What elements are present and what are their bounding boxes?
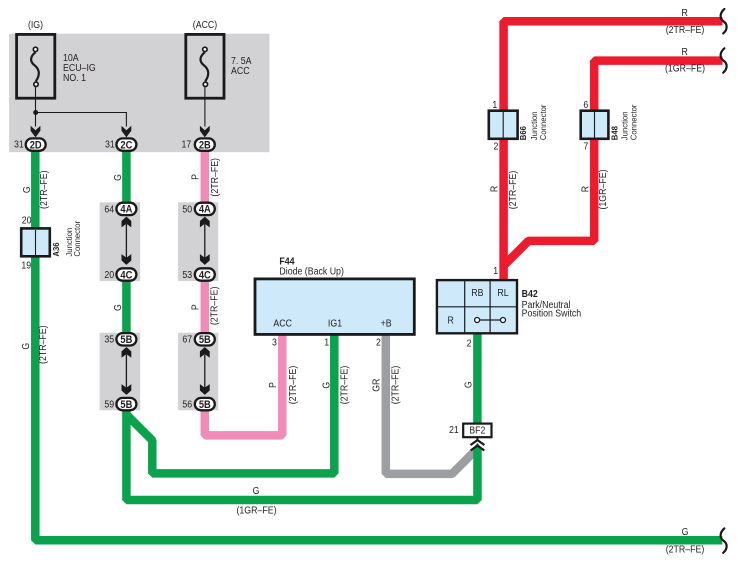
svg-text:19: 19 bbox=[21, 259, 31, 271]
label F44 Diode (Back Up) bbox=[279, 255, 343, 276]
connector oval 5B upper right bbox=[195, 333, 215, 346]
svg-text:R: R bbox=[448, 314, 455, 326]
svg-text:2: 2 bbox=[467, 337, 472, 349]
wire G: B42 pin 2 down to BF2 bbox=[473, 333, 482, 425]
connector oval 4A left bbox=[116, 203, 136, 216]
svg-text:R: R bbox=[579, 186, 591, 193]
connector oval 4C right bbox=[195, 268, 215, 281]
wire break symbol bottom right bbox=[721, 528, 727, 552]
fuse block panel bbox=[9, 34, 269, 153]
svg-text:5B: 5B bbox=[199, 399, 211, 411]
svg-text:G: G bbox=[111, 174, 123, 181]
svg-text:RL: RL bbox=[497, 287, 508, 299]
svg-text:1: 1 bbox=[324, 336, 329, 348]
wire from fuse IG down to junction node bbox=[35, 87, 37, 113]
park/neutral position switch B42 box bbox=[437, 280, 517, 333]
wire G: 2C down to 4A bbox=[122, 145, 131, 209]
svg-text:31: 31 bbox=[105, 138, 115, 150]
connector oval 2C bbox=[116, 138, 136, 151]
svg-text:50: 50 bbox=[182, 203, 192, 215]
svg-text:(1GR–FE): (1GR–FE) bbox=[236, 504, 276, 516]
svg-text:4A: 4A bbox=[120, 204, 133, 216]
svg-text:5B: 5B bbox=[199, 334, 211, 346]
label 21 BF2 bbox=[449, 424, 485, 436]
shaded box for connector pair 4A/4C (left) bbox=[100, 202, 141, 281]
svg-text:3: 3 bbox=[272, 336, 277, 348]
connector oval 5B upper left bbox=[116, 333, 136, 346]
shaded box for connector pair 5B/5B (right) bbox=[178, 333, 218, 411]
svg-text:4A: 4A bbox=[199, 204, 212, 216]
connector oval 2B bbox=[195, 138, 215, 151]
wire break symbol top right (2TR-FE) bbox=[721, 9, 727, 33]
svg-text:(2TR–FE): (2TR–FE) bbox=[208, 158, 220, 197]
wire G (1GR-FE): 5B down, right, up to BF2 bbox=[126, 404, 477, 500]
wire G (2TR-FE): 2D to A36 to bottom rail bbox=[35, 145, 722, 540]
svg-text:67: 67 bbox=[182, 333, 192, 345]
wire P (2TR-FE): 2B down to 4A bbox=[201, 145, 210, 209]
svg-text:5B: 5B bbox=[120, 399, 132, 411]
svg-text:20: 20 bbox=[104, 268, 114, 280]
connector BF2 box bbox=[463, 424, 491, 438]
wire G: 4C down to 5B bbox=[122, 274, 131, 340]
label B42 Park/Neutral Position Switch bbox=[522, 287, 582, 318]
svg-text:1: 1 bbox=[493, 265, 498, 277]
svg-text:GR: GR bbox=[370, 378, 382, 391]
svg-text:Position Switch: Position Switch bbox=[522, 307, 582, 319]
svg-text:(2TR–FE): (2TR–FE) bbox=[208, 287, 220, 326]
svg-text:B66: B66 bbox=[519, 126, 528, 141]
wire break symbol right (1GR-FE) bbox=[721, 48, 727, 72]
svg-text:31: 31 bbox=[14, 138, 24, 150]
shaded box for connector pair 5B/5B (left) bbox=[100, 333, 141, 411]
terminal arrow into 2B bbox=[200, 126, 210, 138]
double arrow between 4A and 4C (right) bbox=[200, 217, 210, 265]
svg-text:ACC: ACC bbox=[231, 64, 250, 76]
connector oval 5B lower left bbox=[116, 398, 136, 411]
svg-text:(2TR–FE): (2TR–FE) bbox=[666, 543, 705, 555]
svg-text:64: 64 bbox=[104, 203, 114, 215]
svg-text:R: R bbox=[682, 45, 689, 57]
fuse IG value label bbox=[63, 51, 96, 83]
svg-text:G: G bbox=[253, 484, 260, 496]
svg-text:IG1: IG1 bbox=[328, 317, 342, 329]
svg-text:2D: 2D bbox=[30, 140, 42, 152]
svg-text:(2TR–FE): (2TR–FE) bbox=[37, 170, 49, 209]
svg-text:B48: B48 bbox=[610, 126, 619, 141]
pointed top of green wire at BF2 splice bbox=[473, 443, 482, 449]
svg-text:G: G bbox=[682, 525, 689, 537]
svg-text:Connector: Connector bbox=[538, 104, 547, 140]
svg-text:G: G bbox=[20, 343, 32, 350]
fuse ACC value label bbox=[231, 55, 252, 76]
svg-text:(2TR–FE): (2TR–FE) bbox=[287, 366, 299, 405]
svg-text:20: 20 bbox=[22, 214, 32, 226]
svg-text:(2TR–FE): (2TR–FE) bbox=[36, 325, 48, 364]
svg-text:(1GR–FE): (1GR–FE) bbox=[665, 62, 705, 74]
svg-text:BF2: BF2 bbox=[469, 424, 485, 436]
svg-text:(2TR–FE): (2TR–FE) bbox=[666, 23, 705, 35]
svg-text:(IG): (IG) bbox=[28, 18, 43, 30]
svg-text:4C: 4C bbox=[120, 270, 133, 282]
double arrow between 4A and 4C (left) bbox=[122, 217, 132, 265]
svg-text:2C: 2C bbox=[120, 140, 133, 152]
svg-text:G: G bbox=[111, 304, 123, 311]
junction connector B66 bbox=[489, 111, 518, 139]
wire R (2TR-FE): right edge to B66 to B42 pin 1 bbox=[504, 21, 723, 281]
svg-text:(ACC): (ACC) bbox=[193, 18, 217, 30]
svg-text:A36: A36 bbox=[52, 242, 61, 257]
terminal arrow into 2D bbox=[31, 126, 41, 138]
fuse (IG) box bbox=[17, 34, 55, 98]
svg-text:6: 6 bbox=[583, 99, 588, 111]
svg-text:2: 2 bbox=[494, 140, 499, 152]
svg-text:7: 7 bbox=[583, 140, 588, 152]
diode F44 box bbox=[255, 279, 414, 335]
svg-text:56: 56 bbox=[182, 398, 192, 410]
svg-text:+B: +B bbox=[381, 317, 392, 329]
svg-text:G: G bbox=[320, 382, 332, 389]
label B66 Junction Connector bbox=[519, 104, 548, 140]
junction node dot bbox=[33, 110, 38, 115]
connector oval 4C left bbox=[116, 268, 136, 281]
junction connector B48 bbox=[581, 111, 609, 139]
svg-text:R: R bbox=[488, 186, 500, 193]
junction connector A36 bbox=[21, 228, 50, 256]
wire branch from node to 2C arrow bbox=[36, 113, 127, 127]
svg-text:2B: 2B bbox=[199, 140, 211, 152]
svg-text:(2TR–FE): (2TR–FE) bbox=[506, 171, 518, 210]
svg-text:G: G bbox=[462, 381, 474, 388]
svg-text:21: 21 bbox=[449, 424, 459, 436]
double arrow between 5B and 5B (right) bbox=[200, 347, 210, 395]
svg-text:59: 59 bbox=[104, 398, 114, 410]
svg-text:17: 17 bbox=[182, 138, 192, 150]
svg-text:R: R bbox=[682, 7, 689, 19]
shaded box for connector pair 4A/4C (right) bbox=[178, 202, 218, 281]
svg-text:Diode (Back Up): Diode (Back Up) bbox=[279, 265, 343, 277]
svg-text:Connector: Connector bbox=[629, 104, 638, 140]
switch contact symbol in B42 bbox=[475, 318, 506, 323]
wire from fuse ACC down to 2B arrow bbox=[204, 87, 206, 127]
double chevron splice symbol under BF2 bbox=[471, 437, 485, 451]
svg-text:ACC: ACC bbox=[273, 317, 292, 329]
fuse ACC element symbol bbox=[201, 47, 209, 86]
svg-text:Connector: Connector bbox=[73, 221, 82, 257]
double arrow between 5B and 5B (left) bbox=[122, 347, 132, 395]
svg-text:P: P bbox=[189, 174, 201, 180]
svg-text:2: 2 bbox=[376, 336, 381, 348]
svg-text:5B: 5B bbox=[120, 334, 132, 346]
label A36 Junction Connector bbox=[52, 221, 82, 257]
wire P: 5B down, right, up to diode ACC bbox=[205, 333, 282, 435]
wire R (1GR-FE): right edge to B48, down, left, diagonal join bbox=[505, 61, 723, 265]
connector oval 2D bbox=[26, 138, 46, 151]
svg-text:35: 35 bbox=[104, 333, 114, 345]
connector oval 5B lower right bbox=[195, 398, 215, 411]
label B48 Junction Connector bbox=[610, 104, 638, 140]
svg-text:1: 1 bbox=[492, 99, 497, 111]
svg-text:53: 53 bbox=[182, 268, 192, 280]
svg-text:NO. 1: NO. 1 bbox=[63, 71, 86, 83]
wire from node down to 2D arrow bbox=[35, 113, 37, 127]
svg-text:P: P bbox=[189, 304, 201, 310]
svg-text:G: G bbox=[20, 186, 32, 193]
wire G: branch from 5B wire to diode IG1 bbox=[126, 333, 334, 473]
wire P: 4C down to 5B bbox=[201, 274, 210, 340]
wire GR (2TR-FE): diode +B down, right, diagonal to BF2 splice bbox=[386, 333, 475, 474]
fuse IG element symbol bbox=[31, 47, 39, 86]
svg-text:(2TR–FE): (2TR–FE) bbox=[389, 366, 401, 405]
svg-text:4C: 4C bbox=[199, 270, 212, 282]
svg-text:RB: RB bbox=[471, 287, 483, 299]
connector oval 4A right bbox=[195, 203, 215, 216]
fuse (ACC) box bbox=[186, 34, 224, 98]
svg-text:(1GR–FE): (1GR–FE) bbox=[597, 169, 609, 209]
svg-text:P: P bbox=[266, 382, 278, 388]
terminal arrow into 2C bbox=[122, 126, 132, 138]
svg-text:(2TR–FE): (2TR–FE) bbox=[338, 366, 350, 405]
